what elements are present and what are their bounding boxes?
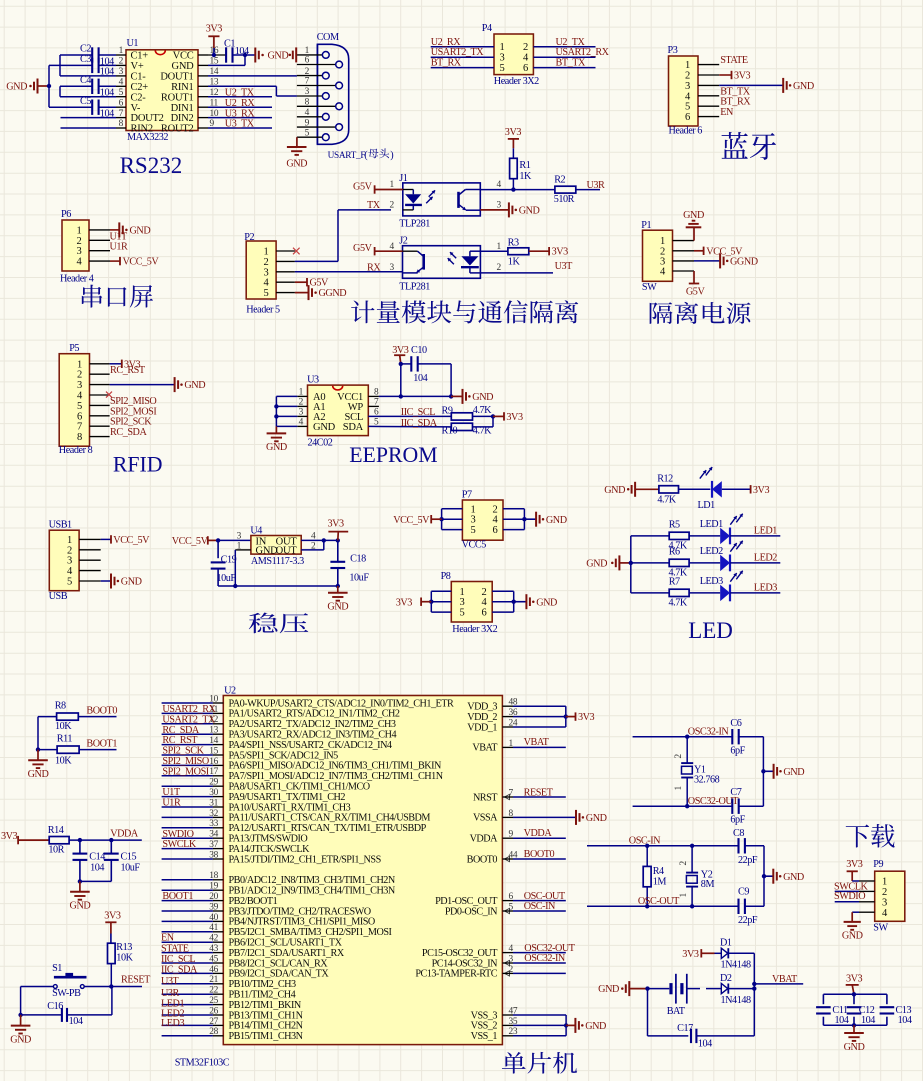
svg-text:U1R: U1R: [110, 242, 129, 253]
svg-text:J2: J2: [399, 236, 408, 247]
power G5V below P1 pin4: [686, 271, 706, 298]
svg-text:ROUT1: ROUT1: [161, 92, 194, 103]
svg-text:R14: R14: [48, 825, 64, 836]
title lanya bluetooth: [722, 132, 777, 160]
wire PC13 stub: [502, 972, 565, 974]
svg-text:Header 3X2: Header 3X2: [452, 624, 497, 635]
wire Y2 right rail: [763, 846, 765, 907]
ground GND below C14: [70, 881, 91, 911]
wires U2 VSS bracket to ground: [502, 1015, 566, 1036]
ground GND at P6 pin1: [110, 222, 150, 237]
resistor R12 4.7K: [657, 474, 678, 506]
svg-text:3V3: 3V3: [682, 949, 699, 960]
svg-text:5: 5: [685, 102, 690, 113]
svg-text:9: 9: [305, 118, 310, 128]
svg-text:5: 5: [471, 525, 476, 536]
svg-text:GND: GND: [842, 931, 863, 942]
svg-text:BT_RX: BT_RX: [431, 58, 462, 69]
svg-text:1: 1: [67, 535, 72, 546]
svg-text:3: 3: [685, 81, 690, 92]
svg-text:R10: R10: [442, 426, 458, 437]
title metering module isolation: [351, 300, 578, 323]
svg-text:Header 3X2: Header 3X2: [494, 76, 539, 87]
svg-text:2: 2: [679, 861, 689, 866]
resistor R8 10K: [38, 701, 78, 732]
svg-text:C12: C12: [859, 1005, 875, 1016]
svg-text:SPI2_MISO: SPI2_MISO: [110, 396, 156, 407]
svg-text:PA12/USART1_RTS/CAN_TX/TIM1_ET: PA12/USART1_RTS/CAN_TX/TIM1_ETR/USBDP: [229, 823, 427, 834]
power VCC_5V at USB pin1: [101, 535, 150, 546]
resistor R4 1M: [643, 846, 666, 907]
capacitor C8 22pF: [733, 828, 764, 866]
svg-text:R8: R8: [55, 701, 66, 712]
chip U4 AMS1117-3.3: [237, 526, 316, 568]
svg-text:3: 3: [500, 53, 505, 64]
svg-text:1N4148: 1N4148: [721, 960, 751, 971]
svg-text:GND: GND: [783, 767, 804, 778]
svg-text:GND: GND: [286, 159, 307, 170]
svg-text:4.7K: 4.7K: [657, 494, 676, 505]
ground GND at COM pin1: [289, 47, 297, 62]
svg-text:GND: GND: [472, 392, 493, 403]
svg-text:BOOT0: BOOT0: [524, 849, 555, 860]
wire C3 C5 to ground rail: [49, 65, 116, 107]
svg-text:Header 6: Header 6: [669, 126, 703, 137]
wires P8 right rail: [492, 591, 514, 612]
net label U2_TX wire: [208, 87, 272, 98]
svg-text:1: 1: [77, 225, 82, 236]
junction BOOT gnd: [36, 747, 40, 751]
power 3V3 right of R9: [493, 412, 523, 423]
svg-text:SWCLK: SWCLK: [162, 839, 196, 850]
svg-text:5: 5: [460, 608, 465, 619]
wire VCC pin16 to C1: [208, 48, 226, 55]
svg-text:1M: 1M: [653, 876, 667, 887]
svg-text:PB15/TIM1_CH3N: PB15/TIM1_CH3N: [229, 1031, 304, 1042]
svg-text:SDA: SDA: [343, 422, 364, 433]
power G5V at J2 pin4: [353, 243, 402, 255]
power VCC_5V at P1 pin2: [694, 246, 743, 257]
svg-text:6: 6: [493, 525, 498, 536]
svg-text:C2-: C2-: [131, 92, 147, 103]
svg-text:C15: C15: [121, 852, 137, 863]
svg-text:2: 2: [523, 42, 528, 53]
svg-text:2: 2: [77, 236, 82, 247]
svg-text:PA0-WKUP/USART2_CTS/ADC12_IN0/: PA0-WKUP/USART2_CTS/ADC12_IN0/TIM2_CH1_E…: [229, 698, 454, 709]
wire decoupling top rail: [823, 993, 887, 995]
capacitor C3: [80, 54, 114, 78]
svg-text:6: 6: [305, 56, 310, 66]
pin U3 pin7 stub: [368, 405, 379, 407]
svg-text:USART2_RX: USART2_RX: [162, 704, 216, 715]
resistor R6 4.7K: [631, 546, 689, 578]
junction P7 right: [522, 517, 526, 521]
svg-text:VBAT: VBAT: [772, 974, 798, 985]
diode D1 1N4148: [715, 938, 755, 971]
svg-text:GGND: GGND: [319, 288, 347, 299]
svg-text:SPI2_SCK: SPI2_SCK: [162, 746, 204, 757]
svg-text:USART2_TX: USART2_TX: [162, 714, 216, 725]
svg-text:P6: P6: [61, 209, 71, 220]
capacitor C9 22pF: [738, 886, 764, 926]
svg-text:TLP281: TLP281: [399, 282, 430, 293]
svg-text:10K: 10K: [116, 952, 133, 963]
ground GND below P9: [844, 921, 861, 923]
svg-text:RFID: RFID: [113, 452, 163, 476]
svg-text:V+: V+: [131, 61, 144, 72]
resistor R10 4.7K: [442, 416, 494, 436]
wire Y1 right rail: [762, 737, 764, 807]
title xiazai download: [846, 824, 895, 848]
power 3V3 right of R3: [529, 247, 568, 258]
svg-text:ROUT2: ROUT2: [161, 124, 194, 135]
svg-text:STATE: STATE: [720, 55, 748, 66]
svg-text:GND: GND: [585, 1021, 606, 1032]
junction 3V3 node: [336, 538, 340, 542]
net label U3_RX wire: [208, 108, 272, 119]
svg-text:1: 1: [390, 180, 395, 190]
wire VBAT node vertical: [753, 953, 755, 1036]
svg-text:AMS1117-3.3: AMS1117-3.3: [251, 556, 304, 567]
ground GND at P5: [174, 377, 176, 392]
svg-text:EEPROM: EEPROM: [349, 443, 437, 467]
connector P6 header 4: [60, 209, 110, 285]
svg-text:VDDA: VDDA: [470, 834, 499, 845]
ground GND left of U1: [6, 79, 49, 94]
svg-text:GND: GND: [519, 206, 540, 217]
svg-text:P8: P8: [441, 571, 451, 582]
svg-text:3: 3: [497, 201, 502, 211]
wire VCC to U4 IN: [218, 539, 251, 541]
svg-text:C10: C10: [411, 345, 427, 356]
svg-text:EN: EN: [720, 107, 734, 118]
svg-text:3V3: 3V3: [753, 485, 770, 496]
svg-text:PA1/USART2_RTS/ADC12_IN1/TIM2_: PA1/USART2_RTS/ADC12_IN1/TIM2_CH2: [229, 709, 400, 720]
capacitor C19 10uF: [211, 540, 237, 586]
capacitor C16 104: [21, 987, 112, 1027]
junction VDD bracket: [564, 714, 568, 718]
svg-text:STM32F103C: STM32F103C: [175, 1057, 230, 1068]
svg-text:4: 4: [497, 180, 502, 190]
connector COM DB9 female: [297, 32, 365, 161]
MCU U2 STM32F103C body: [175, 686, 518, 1069]
svg-text:PA13/JTMS/SWDIO: PA13/JTMS/SWDIO: [229, 834, 308, 845]
svg-text:R7: R7: [669, 576, 680, 587]
svg-text:LED3: LED3: [700, 576, 723, 587]
wires U2 left pins: [162, 703, 224, 1036]
svg-text:3: 3: [882, 897, 887, 908]
svg-text:BOOT1: BOOT1: [162, 891, 193, 902]
svg-text:3: 3: [67, 556, 72, 567]
power 3V3 at P9 pin1: [846, 859, 863, 881]
junction OUT bracket: [322, 538, 326, 542]
net label OSC-OUT wire: [587, 896, 739, 907]
svg-text:U1R: U1R: [162, 798, 181, 809]
svg-text:GND: GND: [783, 872, 804, 883]
svg-text:P7: P7: [462, 490, 472, 501]
junction P8 left: [429, 600, 433, 604]
svg-text:C6: C6: [730, 718, 741, 729]
svg-text:VCC_5V: VCC_5V: [172, 536, 209, 547]
svg-text:BOOT1: BOOT1: [86, 739, 117, 750]
resistor R7 4.7K: [631, 576, 689, 608]
svg-text:GND: GND: [10, 1034, 31, 1045]
power 3V3 at P8: [396, 598, 432, 609]
svg-text:PA11/USART1_CTS/CAN_RX/TIM1_CH: PA11/USART1_CTS/CAN_RX/TIM1_CH4/USBDM: [229, 813, 431, 824]
ground GGND at P1 pin3: [694, 253, 758, 268]
svg-text:BT_TX: BT_TX: [556, 58, 587, 69]
svg-text:U2_RX: U2_RX: [225, 98, 256, 109]
junction VBAT: [752, 982, 756, 986]
svg-text:U3: U3: [307, 375, 319, 386]
svg-text:3V3: 3V3: [1, 831, 18, 842]
svg-text:C1: C1: [224, 39, 235, 50]
svg-text:3V3: 3V3: [206, 24, 223, 35]
net label VBAT wire: [502, 737, 565, 748]
pins of U1: [116, 55, 208, 128]
svg-text:PA5/SPI1_SCK/ADC12_IN5: PA5/SPI1_SCK/ADC12_IN5: [229, 750, 339, 761]
svg-text:RIN2: RIN2: [131, 124, 153, 135]
svg-text:LD1: LD1: [698, 500, 716, 511]
svg-text:GND: GND: [683, 210, 704, 221]
ground GND right of C1: [255, 48, 288, 63]
svg-text:C1-: C1-: [131, 72, 147, 83]
svg-text:PA4/SPI1_NSS/USART2_CK/ADC12_I: PA4/SPI1_NSS/USART2_CK/ADC12_IN4: [229, 740, 392, 751]
svg-text:SPI2_MISO: SPI2_MISO: [162, 756, 208, 767]
resistor R14 10R: [48, 825, 69, 856]
junction rail gnd: [78, 879, 82, 883]
svg-text:PB11/TIM2_CH4: PB11/TIM2_CH4: [229, 990, 296, 1001]
svg-text:U2_RX: U2_RX: [431, 37, 462, 48]
svg-text:DOUT2: DOUT2: [131, 113, 164, 124]
svg-text:GND: GND: [536, 597, 557, 608]
junction LED rail: [629, 561, 633, 565]
net label RESET wire at NRST: [502, 787, 565, 798]
junction bottom rail: [852, 1023, 856, 1027]
svg-text:8: 8: [305, 98, 310, 108]
svg-text:GND: GND: [586, 813, 607, 824]
power VCC_5V at P6 pin4: [110, 257, 159, 268]
junction pin8 riser: [399, 394, 403, 398]
junction R4 top: [645, 844, 649, 848]
LED LD1: [698, 467, 722, 511]
svg-text:VBAT: VBAT: [524, 737, 550, 748]
svg-text:2: 2: [674, 754, 684, 759]
svg-text:3V3: 3V3: [552, 247, 569, 258]
svg-text:2: 2: [77, 370, 82, 381]
ground GND at J1 pin3: [508, 202, 510, 217]
svg-text:SW: SW: [873, 922, 888, 933]
svg-text:RC_RST: RC_RST: [110, 365, 146, 376]
svg-text:4: 4: [305, 108, 310, 118]
svg-text:): ): [390, 150, 393, 161]
svg-text:TLP281: TLP281: [399, 219, 430, 230]
wire J1 pin3 to ground: [480, 209, 509, 211]
capacitor C11 104: [816, 994, 849, 1026]
svg-text:GND: GND: [268, 51, 289, 62]
svg-text:R13: R13: [116, 942, 132, 953]
svg-text:U3_RX: U3_RX: [225, 108, 256, 119]
capacitor C2: [80, 44, 114, 68]
svg-text:10K: 10K: [55, 756, 72, 767]
wires U2 VDD bracket to 3V3: [502, 706, 565, 727]
svg-text:RC_SDA: RC_SDA: [162, 725, 199, 736]
label USART_F mu-tou: [364, 148, 393, 161]
wire pin13 RIN1 to COM pin3: [208, 86, 297, 96]
op-amp U1 MAX3232 body: [119, 38, 219, 143]
junction Y1 top: [685, 735, 689, 739]
svg-text:GND: GND: [546, 515, 567, 526]
junction C14 top: [78, 838, 82, 842]
power 3V3 at U2 VDD: [566, 712, 595, 723]
svg-text:3: 3: [305, 87, 310, 97]
power 3V3 above R13: [104, 911, 121, 934]
svg-text:6: 6: [77, 411, 82, 422]
power 3V3 at U4 output: [328, 518, 349, 540]
ground GND at P7: [524, 512, 566, 527]
net label IIC_SDA wire: [368, 418, 451, 429]
capacitor C4: [80, 75, 114, 99]
svg-text:IIC_SDA: IIC_SDA: [401, 418, 438, 429]
resistor R1 1K: [510, 148, 532, 189]
svg-text:VSS_1: VSS_1: [471, 1031, 498, 1042]
title chuankoping serial screen: [82, 285, 153, 308]
net label LED3 wire: [730, 582, 780, 593]
svg-text:USB: USB: [49, 591, 68, 602]
net label IIC_SCL wire: [368, 407, 451, 418]
resistor R13 10K: [108, 934, 134, 987]
net label LED2 wire: [730, 552, 780, 563]
power 3V3 above C10: [392, 345, 409, 364]
no-connect cross at P2 pin1: [293, 248, 300, 255]
wire P9 pin4 to ground: [852, 912, 859, 922]
svg-text:3: 3: [77, 380, 82, 391]
svg-text:3: 3: [390, 263, 395, 273]
capacitor C5: [80, 96, 114, 119]
svg-text:RC_RST: RC_RST: [162, 735, 198, 746]
ground GND at VSS: [566, 1018, 606, 1033]
svg-text:104: 104: [69, 1016, 83, 1027]
svg-text:3: 3: [264, 267, 269, 278]
connector P9 SW: [859, 859, 905, 933]
connector P3 header 6: [668, 45, 720, 137]
svg-text:OSC32-IN: OSC32-IN: [688, 726, 730, 737]
svg-text:LED3: LED3: [754, 582, 777, 593]
svg-text:OSC-OUT: OSC-OUT: [524, 891, 566, 902]
svg-text:BT_RX: BT_RX: [720, 97, 751, 108]
ground GND above P1 pin1: [683, 210, 704, 241]
svg-text:3: 3: [471, 515, 476, 526]
svg-text:PB7/I2C1_SDA/USART1_RX: PB7/I2C1_SDA/USART1_RX: [229, 948, 345, 959]
battery BAT: [648, 974, 722, 1017]
power 3V3 above C1: [206, 24, 223, 49]
svg-text:104: 104: [898, 1015, 912, 1026]
svg-text:2: 2: [493, 504, 498, 515]
power 3V3 above C12: [846, 973, 863, 994]
svg-text:VDD_2: VDD_2: [467, 712, 497, 723]
svg-text:C14: C14: [89, 852, 105, 863]
optocoupler J1 TLP281: [390, 173, 502, 230]
svg-text:VBAT: VBAT: [472, 743, 498, 754]
junction 3V3 C10: [399, 362, 403, 366]
junction R4 bottom: [645, 904, 649, 908]
svg-text:D2: D2: [720, 973, 732, 984]
wires P7 left rail: [442, 509, 463, 530]
svg-text:VSS_2: VSS_2: [471, 1021, 498, 1032]
net label OSC32-IN wire: [502, 953, 566, 964]
svg-text:2: 2: [390, 201, 395, 211]
net label U3R wire: [576, 180, 605, 191]
svg-text:GND: GND: [604, 485, 625, 496]
svg-text:LED1: LED1: [754, 525, 777, 536]
svg-text:USB1: USB1: [49, 520, 72, 531]
title wenya regulator: [249, 613, 309, 634]
junction C15 top: [109, 838, 113, 842]
svg-text:D1: D1: [720, 938, 732, 949]
optocoupler J2 TLP281: [390, 236, 502, 293]
svg-text:C8: C8: [733, 828, 744, 839]
svg-text:OSC32-IN: OSC32-IN: [524, 953, 566, 964]
no-connect cross at P5 pin4: [106, 392, 112, 398]
power 3V3 at P3 pin2: [719, 70, 750, 81]
junction VSS bracket: [564, 1023, 568, 1027]
svg-text:SWDIO: SWDIO: [834, 891, 865, 902]
svg-text:PB1/ADC12_IN9/TIM3_CH4/TIM1_CH: PB1/ADC12_IN9/TIM3_CH4/TIM1_CH3N: [229, 886, 396, 897]
svg-text:GND: GND: [313, 422, 336, 433]
svg-text:P1: P1: [641, 220, 651, 231]
svg-text:R3: R3: [508, 237, 519, 248]
svg-text:U2_TX: U2_TX: [225, 87, 255, 98]
connector P2 header 5: [244, 232, 295, 315]
junction Y2 top: [690, 844, 694, 848]
svg-text:7: 7: [77, 422, 82, 433]
crystal Y2 8M: [679, 846, 714, 907]
net label OSC32-OUT wire: [502, 943, 575, 954]
svg-text:GND: GND: [266, 442, 287, 453]
svg-text:VSSA: VSSA: [473, 813, 498, 824]
net label LED1 wire: [730, 525, 780, 536]
svg-text:5: 5: [67, 577, 72, 588]
wire P3 pin3 to ground: [719, 84, 783, 86]
svg-text:P9: P9: [873, 859, 883, 870]
svg-text:R6: R6: [669, 546, 680, 557]
ground GGND at P2 pin5: [295, 285, 346, 300]
wire J1 pin4 to R2: [480, 189, 555, 191]
connector P7 VCC5: [462, 490, 503, 551]
svg-text:GND: GND: [586, 559, 607, 570]
svg-text:R5: R5: [669, 519, 680, 530]
title geli dianyuan isolated power: [650, 302, 751, 324]
junction top rail: [852, 992, 856, 996]
svg-text:7: 7: [305, 77, 310, 87]
svg-text:BOOT0: BOOT0: [467, 854, 498, 865]
svg-text:IIC_SCL: IIC_SCL: [161, 954, 195, 965]
svg-text:6pF: 6pF: [730, 815, 745, 826]
svg-text:3V3: 3V3: [846, 859, 863, 870]
connector P5 header 8: [59, 343, 110, 456]
ground GND below C18: [327, 586, 348, 613]
svg-text:PA3/USART2_RX/ADC12_IN3/TIM2_C: PA3/USART2_RX/ADC12_IN3/TIM2_CH4: [229, 730, 397, 741]
svg-text:10uF: 10uF: [349, 572, 369, 583]
svg-text:LED2: LED2: [700, 546, 723, 557]
svg-text:PB14/TIM1_CH2N: PB14/TIM1_CH2N: [229, 1021, 304, 1032]
switch S1 SW-PB: [52, 963, 86, 999]
svg-text:G5V: G5V: [353, 243, 373, 254]
title danpianji MCU: [502, 1052, 577, 1074]
wire P2 pin2 to J1 TX: [295, 210, 391, 262]
svg-text:5: 5: [77, 401, 82, 412]
svg-text:VCC: VCC: [173, 51, 194, 62]
